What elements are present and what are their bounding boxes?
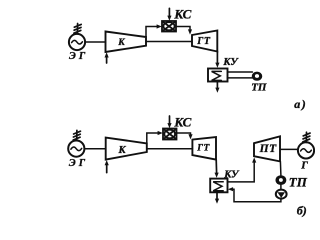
generator ЭГ (a) [69, 34, 85, 50]
wire К→КС (б) [147, 131, 163, 143]
svg-text:К: К [118, 145, 127, 156]
gas turbine ГТ (б) [192, 137, 216, 160]
heat network pipes (a) [228, 72, 253, 78]
svg-text:КУ: КУ [222, 57, 239, 68]
wire shaft ЭГ–К (a) [85, 41, 105, 43]
compressor К (б) [106, 138, 147, 160]
svg-text:ТП: ТП [251, 82, 267, 94]
air inlet arrow (б) [105, 160, 109, 173]
svg-text:К: К [117, 38, 125, 48]
air inlet arrow (a) [105, 52, 109, 63]
HRSG boiler КУ (б) [210, 179, 227, 193]
svg-text:а): а) [294, 97, 307, 111]
steam pipe КУ→ПТ (б) [228, 157, 257, 182]
combustion chamber КС (a) [162, 21, 176, 32]
exhaust arrow below КУ (a) [215, 82, 219, 93]
wire shaft ЭГ–К (б) [84, 148, 105, 150]
svg-text:ТП: ТП [289, 174, 308, 189]
svg-text:ЭГ: ЭГ [69, 158, 88, 169]
wire К→КС (a) [146, 24, 162, 36]
svg-text:ГТ: ГТ [196, 144, 210, 154]
condensate pump (б) [276, 190, 287, 199]
wire ГТ→КУ (a) [215, 52, 219, 68]
svg-text:ПТ: ПТ [259, 143, 278, 155]
generator ЭГ (б) [68, 141, 84, 157]
grid connection symbol above Г (б) [303, 132, 310, 142]
fuel arrow into КС (a) [167, 8, 171, 20]
heat consumer ТП ring (б) [276, 175, 287, 185]
HRSG boiler КУ (a) [208, 69, 228, 82]
wire shaft ПТ–Г (б) [280, 148, 298, 150]
generator Г (б) [298, 142, 314, 158]
svg-text:Г: Г [300, 160, 308, 172]
wire ТП→pump (б) [280, 185, 282, 189]
wire ПТ→ТП (б) [279, 161, 282, 175]
grid connection symbol above ЭГ (a) [74, 24, 81, 34]
svg-text:КС: КС [173, 115, 191, 130]
condensate return wire pump→КУ (б) [228, 187, 281, 202]
gas turbine ГТ (a) [192, 31, 217, 52]
svg-text:б): б) [297, 204, 307, 218]
exhaust arrow below КУ (б) [215, 192, 219, 204]
fuel arrow into КС (б) [167, 116, 171, 128]
svg-text:ГТ: ГТ [196, 36, 211, 47]
svg-text:ЭГ: ЭГ [69, 51, 88, 62]
compressor К (a) [106, 32, 147, 53]
wire ГТ→КУ (б) [215, 160, 219, 178]
heat consumer ТП ring (a) [252, 72, 263, 81]
grid connection symbol above ЭГ (б) [73, 130, 80, 140]
wire КС→ГТ (a) [176, 27, 192, 35]
wire shaft К–ГТ (a) [146, 41, 192, 43]
steam turbine ПТ (б) [254, 136, 280, 161]
wire КС→ГТ (б) [177, 133, 193, 139]
wire shaft К–ГТ (б) [147, 148, 193, 150]
svg-text:КС: КС [173, 7, 191, 22]
combustion chamber КС (б) [163, 129, 177, 140]
